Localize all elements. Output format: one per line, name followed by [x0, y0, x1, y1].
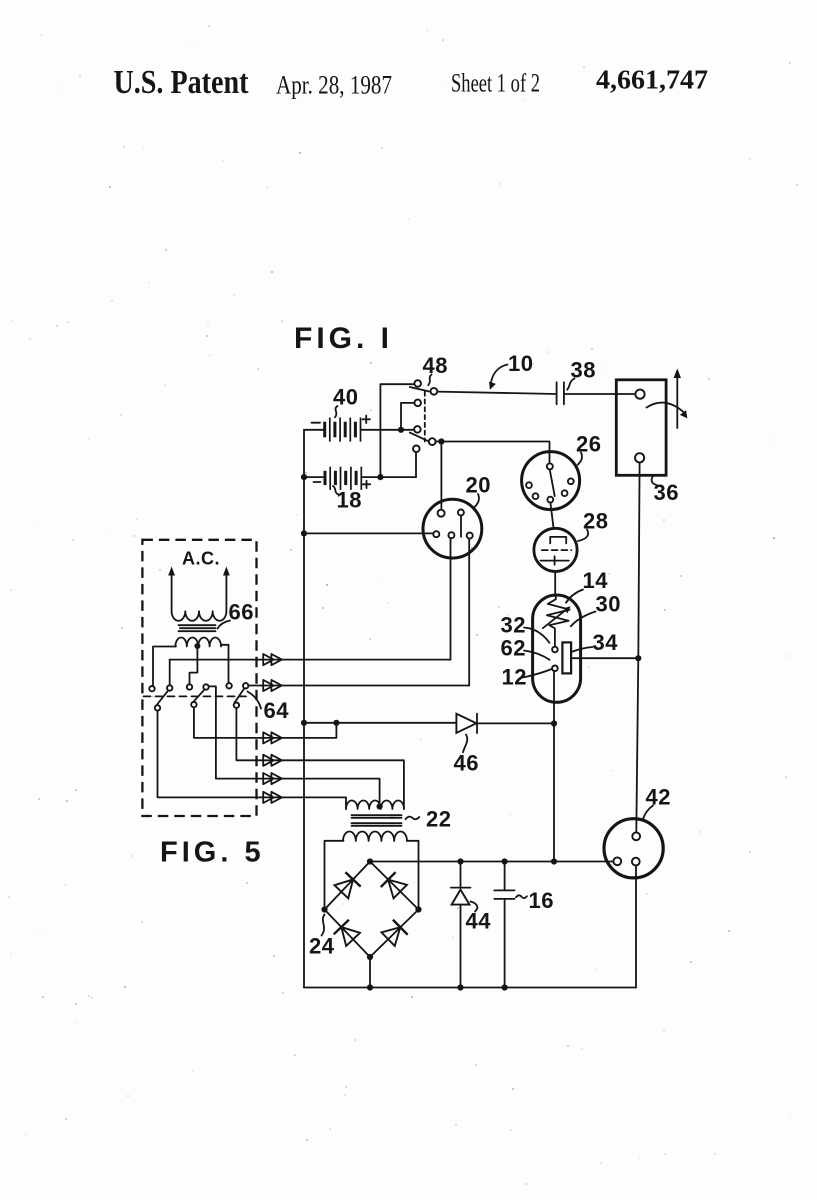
- A.C. arrow left: [171, 573, 173, 611]
- node: electrode 34 / right line: [635, 655, 641, 661]
- wire: battery 18 right lead: [361, 476, 416, 478]
- rotary 26 pin e: [568, 478, 574, 484]
- wire: row 1 from switch contact: [169, 660, 171, 686]
- switch 3 left contact: [226, 683, 231, 688]
- wire: row 1 horizontal: [170, 659, 451, 661]
- switch 1 right contact: [167, 685, 172, 690]
- node: bridge left vertex: [321, 906, 327, 912]
- transformer 66 secondary coil: [175, 638, 221, 647]
- svg-text:48: 48: [423, 353, 448, 378]
- bridge rectifier 24 diamond: [325, 862, 419, 958]
- svg-text:36: 36: [654, 480, 679, 505]
- node: bottom rail / diode 44: [457, 984, 463, 990]
- wire: switch lower throw to rotary 26: [436, 442, 550, 464]
- box 36 rotation arrow: [647, 403, 685, 413]
- wire: DC output rail: [370, 861, 614, 863]
- switch 48 blade lower: [410, 433, 429, 442]
- wire: capacitor 38 to box 36 pin: [564, 393, 636, 395]
- wire: row 5 from contact to transformer 22 tap: [209, 686, 380, 806]
- svg-text:Sheet 1 of 2: Sheet 1 of 2: [451, 69, 540, 98]
- switch bank 64 gang dashes: [144, 695, 247, 697]
- svg-text:32: 32: [501, 613, 526, 638]
- switch 3 blade: [235, 688, 245, 702]
- node: battery 18 + / top pole riser: [377, 474, 383, 480]
- socket 20 key stub: [460, 516, 462, 537]
- wire: battery 18 left lead: [304, 476, 325, 478]
- svg-text:U.S. Patent: U.S. Patent: [114, 64, 250, 101]
- switch 2 pivot: [191, 702, 196, 707]
- wire: row 4 from pivot 3 to transformer 22 right: [236, 708, 404, 809]
- box 36 bottom pin: [635, 453, 644, 462]
- bridge 24 diode lower-right: [381, 920, 408, 947]
- connector 42 pin left: [613, 857, 621, 865]
- connector 42 pin top: [632, 832, 640, 840]
- rotary 26 wiper: [550, 469, 555, 496]
- node: rail / diode 44: [457, 858, 463, 864]
- wire: switch lower throw down to socket 20: [440, 442, 442, 510]
- switch 1 pivot: [155, 705, 160, 710]
- switch 2 left contact: [187, 684, 192, 689]
- svg-text:44: 44: [466, 909, 492, 934]
- node: bottom rail / capacitor 16: [502, 984, 508, 990]
- switch 48 middle throw contact: [414, 400, 421, 407]
- tube 14 envelope: [533, 595, 581, 702]
- svg-text:A.C.: A.C.: [182, 549, 220, 569]
- wire: row 3 from pivot 2 to diode line: [194, 707, 337, 738]
- resistor 30 variable arrow: [543, 609, 567, 628]
- capacitor C38: [557, 382, 564, 404]
- svg-text:62: 62: [501, 636, 526, 661]
- switch 48 top throw contact: [431, 388, 438, 395]
- svg-text:4,661,747: 4,661,747: [596, 65, 708, 95]
- wire: diode 46 line from bus: [304, 722, 554, 725]
- cable connector arrow row 2: [263, 680, 282, 691]
- transformer 66 core: [179, 625, 216, 631]
- node: center tap junction: [194, 643, 200, 649]
- wire: box 36 down to connector 42: [636, 463, 639, 833]
- rotary switch 26 body: [522, 452, 580, 510]
- node: rail / contact 12 wire: [551, 858, 557, 864]
- wire: switch lowest contact stub: [415, 452, 417, 477]
- cable connector arrow row 3: [263, 732, 282, 743]
- rotary 26 pin d: [562, 490, 568, 496]
- switch 1 left contact: [149, 686, 154, 691]
- contact 62 circle: [552, 647, 558, 653]
- cable connector arrow row 5: [263, 773, 282, 784]
- wire: bus to socket 20 left pin: [304, 532, 433, 534]
- bridge 24 diode upper-right: [381, 872, 408, 899]
- bridge 24 diode lower-left: [334, 920, 361, 947]
- rotary 26 pin b: [533, 493, 539, 499]
- node: bus / diode 46 wire: [301, 720, 307, 726]
- wire: capacitor 16 branch: [504, 862, 506, 988]
- wire: electrode 34 to right line: [571, 657, 638, 659]
- svg-text:16: 16: [529, 888, 554, 913]
- svg-text:42: 42: [646, 785, 671, 810]
- node: bridge bottom vertex: [367, 954, 373, 960]
- wire: switch to capacitor 38 (node 10 line): [437, 392, 556, 394]
- wire: battery 40 left lead: [304, 429, 325, 431]
- wire: rotary 26 to lamp 28: [550, 503, 553, 529]
- svg-text:FIG. I: FIG. I: [294, 322, 393, 355]
- switch 3 pivot: [234, 703, 239, 708]
- svg-text:24: 24: [309, 934, 335, 959]
- wire: secondary 66 center tap to switch 2: [190, 647, 198, 685]
- switch 48 dashed gang link: [424, 392, 426, 442]
- switch 3 right contact: [243, 683, 248, 688]
- rotary 26 pin a: [526, 482, 532, 488]
- node: bus / battery 18: [301, 474, 307, 480]
- wire: lamp 28 to tube 14: [554, 572, 556, 596]
- svg-text:46: 46: [454, 751, 479, 776]
- switch 48 lower pole contact: [414, 426, 421, 433]
- box 36 vertical motion arrow: [676, 375, 678, 429]
- node: lower throw junction: [438, 438, 444, 444]
- battery 18: [325, 467, 361, 490]
- diode 44: [451, 887, 471, 889]
- wire: battery 18 + up to switch top pole: [380, 384, 414, 477]
- svg-text:26: 26: [576, 432, 601, 457]
- cable connector arrow row 1: [263, 654, 282, 665]
- transformer 66 primary coil: [172, 611, 227, 621]
- svg-text:Apr. 28, 1987: Apr. 28, 1987: [276, 71, 392, 100]
- wire: socket 20 center pin down (to row 1): [450, 538, 452, 659]
- socket 20 pin center: [448, 532, 454, 538]
- wire: diode 44 branch: [460, 862, 462, 988]
- lamp 28 top electrode: [550, 537, 566, 544]
- lamp 28 body: [534, 528, 577, 571]
- battery 18 minus sign: [314, 481, 321, 483]
- svg-text:FIG. 5: FIG. 5: [160, 837, 265, 869]
- switch 48 blade upper: [410, 387, 430, 392]
- switch 2 blade: [192, 689, 205, 704]
- node: diode 46 / contact 12 wire: [551, 720, 557, 726]
- contact 12 circle: [552, 666, 558, 672]
- connector 42 body: [604, 819, 663, 878]
- switch 48 top pole contact: [414, 380, 421, 387]
- node: transformer 22 center tap: [377, 803, 383, 809]
- socket 20 pin left: [433, 531, 439, 537]
- svg-text:64: 64: [264, 698, 290, 723]
- wire: secondary 22 right to bridge: [407, 841, 419, 910]
- transformer 22 primary coil: [346, 801, 404, 810]
- wire: secondary 66 left end to switch 1: [153, 647, 176, 687]
- node: battery 40 + / mid throw: [398, 427, 404, 433]
- socket 20 pin top-left: [438, 510, 445, 517]
- switch 1 blade: [155, 690, 168, 707]
- svg-text:66: 66: [229, 600, 254, 625]
- battery 18 plus sign: [363, 481, 371, 489]
- wire: row 2 horizontal: [248, 685, 469, 687]
- diode 46: [456, 714, 476, 733]
- rotary 26 pin top: [547, 463, 553, 469]
- wire: switch mid throw stub: [401, 403, 415, 430]
- wire: connector 42 right pin down: [635, 866, 637, 988]
- electrode 34 rectangle: [562, 642, 571, 673]
- battery 40 minus sign: [312, 422, 321, 424]
- wire: socket 20 right pin down (to row 2): [468, 539, 470, 686]
- wire: left bus vertical: [303, 430, 305, 988]
- svg-text:10: 10: [508, 351, 533, 376]
- transformer 22 secondary coil: [343, 832, 407, 842]
- resistor 30 zigzag: [547, 596, 570, 647]
- wire: row 6 from pivot 1 to transformer 22 left: [158, 711, 347, 809]
- svg-text:22: 22: [426, 807, 451, 832]
- lamp 28 electrode tick: [554, 556, 556, 565]
- switch 48 lowest contact: [413, 446, 420, 453]
- wire: secondary 66 right end to switch 3: [221, 645, 229, 683]
- socket 20 pin right: [467, 533, 473, 539]
- box 36 top pin: [635, 390, 644, 399]
- switch 48 lower throw contact: [429, 438, 436, 445]
- wire: secondary 22 left to bridge: [325, 841, 344, 910]
- rotary 26 pin c: [547, 497, 553, 503]
- socket 20 pin top-right: [458, 510, 464, 516]
- bridge 24 diode upper-left: [334, 872, 361, 899]
- connector 42 pin right: [632, 858, 640, 866]
- battery 40: [325, 418, 361, 442]
- FIG5 dashed enclosure: [142, 540, 256, 816]
- cable connector arrow row 6: [263, 792, 282, 803]
- battery 40 plus sign: [363, 416, 371, 424]
- node: rail / capacitor 16: [502, 858, 508, 864]
- node: bridge right vertex: [415, 906, 421, 912]
- A.C. arrow right: [225, 573, 227, 611]
- node: bottom rail / bridge: [367, 984, 373, 990]
- switch 2 right contact: [203, 684, 208, 689]
- label 22: [406, 817, 420, 820]
- meter box 36: [616, 380, 666, 476]
- transformer 22 core: [352, 815, 402, 826]
- svg-text:14: 14: [583, 568, 609, 593]
- lamp 28 lower electrode: [541, 560, 569, 562]
- wire: battery 40 right lead to switch lower pole: [361, 429, 415, 431]
- svg-text:18: 18: [337, 488, 362, 513]
- node: row 3 tap: [333, 720, 339, 726]
- node: bridge top vertex: [367, 858, 373, 864]
- label 16: [516, 895, 527, 898]
- cable connector arrow row 4: [263, 755, 282, 766]
- wire: bridge bottom vertex down: [369, 957, 371, 988]
- socket 20 body: [423, 499, 482, 558]
- wire: bottom rail: [304, 987, 636, 989]
- lamp 28 dashed electrode: [542, 549, 572, 551]
- wire: contact 12 down to output rail: [553, 671, 555, 861]
- svg-text:34: 34: [593, 630, 619, 655]
- node: bus / socket 20 wire: [301, 530, 307, 536]
- capacitor 16: [494, 890, 514, 899]
- svg-text:30: 30: [596, 592, 621, 617]
